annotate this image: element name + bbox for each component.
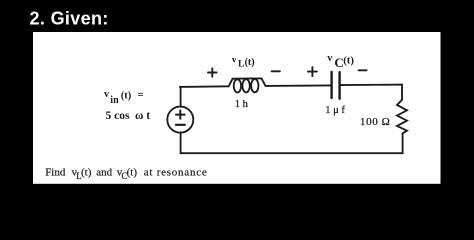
label vin(t) = (104, 89, 144, 106)
svg-text:100 Ω: 100 Ω (360, 116, 390, 128)
wire: top rail, capacitor to top-right corner, down to resistor (340, 85, 402, 100)
svg-text:(t): (t) (245, 57, 255, 68)
svg-text:Find: Find (45, 166, 66, 178)
capacitor C (two plates) (332, 72, 340, 99)
voltage source Vin (circle with + / - ) (167, 107, 193, 133)
svg-text:(t): (t) (121, 91, 132, 102)
label vL(t) above inductor (232, 56, 255, 70)
svg-text:in: in (110, 95, 119, 106)
svg-text:v: v (327, 53, 333, 64)
svg-text:(t): (t) (127, 166, 138, 178)
label vC(t) above capacitor (327, 53, 354, 70)
polarity - right of capacitor (359, 69, 367, 71)
resistor R 100 ohm (zigzag) (397, 100, 407, 134)
svg-text:2. Given:: 2. Given: (30, 9, 109, 29)
svg-text:(t): (t) (81, 166, 92, 178)
wire: source top terminal to top rail corner (180, 87, 182, 107)
wire: bottom rail (181, 152, 403, 154)
svg-text:v: v (104, 89, 109, 100)
inductor L (bumps and three coil loops) (229, 78, 266, 92)
svg-text:v: v (232, 56, 237, 66)
wire: top rail, source to inductor (180, 85, 229, 88)
caption: Find vL(t) and vC(t) at resonance (45, 166, 207, 181)
wire: top rail, inductor to capacitor (266, 84, 332, 87)
svg-text:1 h: 1 h (235, 99, 249, 110)
svg-text:1 μ f: 1 μ f (325, 105, 345, 116)
svg-text:and: and (96, 166, 112, 178)
polarity + left of inductor (208, 68, 217, 77)
svg-text:L: L (238, 60, 244, 70)
svg-text:=: = (137, 89, 143, 101)
wire: resistor bottom to bottom-right corner (402, 133, 404, 153)
wire: bottom rail to source bottom terminal (180, 133, 182, 154)
svg-text:5 cos: 5 cos (106, 110, 130, 122)
svg-text:at resonance: at resonance (144, 166, 208, 178)
svg-text:ω t: ω t (135, 110, 150, 122)
svg-text:(t): (t) (343, 55, 354, 67)
label 5 cos wt (106, 110, 151, 122)
polarity - right of inductor (272, 70, 280, 72)
polarity + left of capacitor (308, 67, 317, 76)
